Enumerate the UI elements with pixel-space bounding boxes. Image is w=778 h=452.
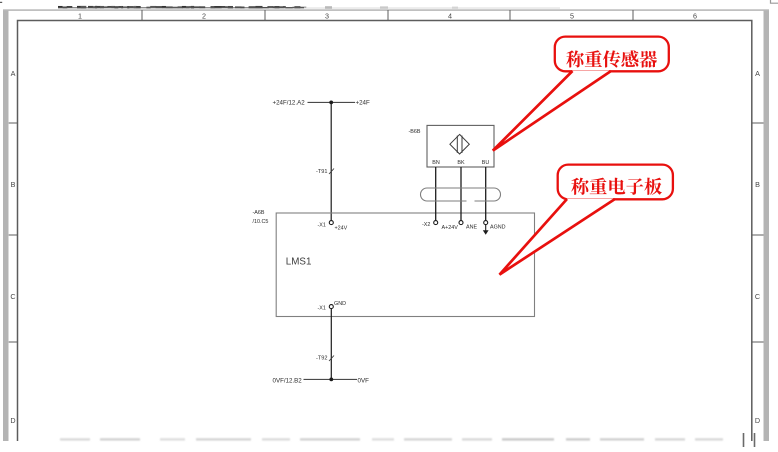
svg-text:LMS1: LMS1 xyxy=(286,256,312,267)
svg-text:B: B xyxy=(755,180,760,189)
svg-text:+24F/12.A2: +24F/12.A2 xyxy=(273,100,306,107)
svg-text:-X2: -X2 xyxy=(422,222,430,228)
callout text 称重传感器 xyxy=(566,50,657,67)
svg-text:6: 6 xyxy=(693,12,697,21)
svg-text:B: B xyxy=(11,180,16,189)
svg-text:GND: GND xyxy=(334,301,346,307)
svg-text:2: 2 xyxy=(202,12,206,21)
terminal -X2 A+24V xyxy=(434,221,438,225)
terminal AGND xyxy=(484,221,488,225)
svg-text:1: 1 xyxy=(78,12,82,21)
svg-text:4: 4 xyxy=(448,12,452,21)
svg-text:A: A xyxy=(755,69,760,78)
svg-text:-T91: -T91 xyxy=(316,169,328,175)
svg-text:C: C xyxy=(755,292,760,301)
terminal ANE xyxy=(459,221,463,225)
svg-text:/10.C5: /10.C5 xyxy=(253,219,269,225)
svg-text:0VF/12.B2: 0VF/12.B2 xyxy=(273,377,303,384)
callout tail to sensor xyxy=(493,71,611,151)
svg-text:-A6B: -A6B xyxy=(253,210,265,216)
callout bubble 称重传感器 xyxy=(555,37,669,72)
wire 0VF rail xyxy=(304,378,358,380)
svg-text:-T92: -T92 xyxy=(316,356,328,362)
svg-text:ANE: ANE xyxy=(466,224,477,230)
callout bubble 称重电子板 xyxy=(558,165,673,200)
board -A6B box (LMS1) xyxy=(276,213,534,317)
svg-text:-B6B: -B6B xyxy=(409,129,421,135)
svg-text:BU: BU xyxy=(482,160,490,166)
wire +24F rail xyxy=(308,101,356,103)
svg-text:-X1: -X1 xyxy=(318,223,326,229)
svg-text:D: D xyxy=(10,416,15,425)
wire BK xyxy=(460,167,462,221)
svg-text:BK: BK xyxy=(457,160,465,166)
svg-text:A+24V: A+24V xyxy=(442,225,459,231)
cable symbol xyxy=(421,188,501,201)
sensor symbol (load cell diamond) xyxy=(450,134,469,154)
svg-text:5: 5 xyxy=(570,12,574,21)
wire GND down to 0VF xyxy=(330,309,332,380)
sensor -B6B box xyxy=(427,125,494,167)
wire BU xyxy=(485,167,487,221)
svg-text:D: D xyxy=(755,416,760,425)
svg-text:A: A xyxy=(11,69,16,78)
svg-text:C: C xyxy=(10,292,15,301)
svg-text:+24F: +24F xyxy=(356,100,370,107)
wire BN xyxy=(435,167,437,221)
svg-text:AGND: AGND xyxy=(490,224,506,230)
wire +24V feed down to X1 xyxy=(330,102,332,220)
svg-text:3: 3 xyxy=(325,12,329,21)
terminal -X1 +24V xyxy=(329,221,333,225)
svg-text:BN: BN xyxy=(432,160,440,166)
junction +24F rail xyxy=(329,101,333,105)
callout tail to board xyxy=(500,199,616,275)
callout text 称重电子板 xyxy=(571,178,662,195)
ground AGND arrow xyxy=(485,225,487,231)
terminal -X1 GND xyxy=(329,305,333,309)
svg-text:-X1: -X1 xyxy=(318,305,326,311)
junction 0VF rail xyxy=(329,378,333,382)
svg-text:0VF: 0VF xyxy=(358,377,370,384)
svg-text:+24V: +24V xyxy=(335,225,348,231)
